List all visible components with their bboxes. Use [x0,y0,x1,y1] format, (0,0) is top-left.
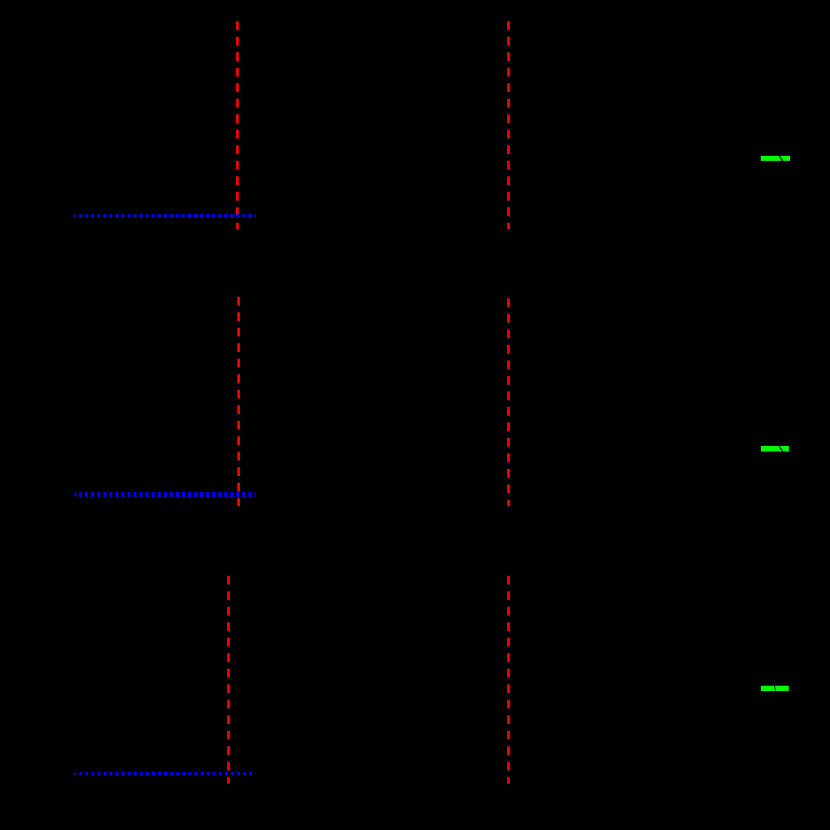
subplot 3: blue dotted hline [79,772,255,775]
subplot 1: blue arrowhead [73,214,77,218]
subplot 1: green segment [761,156,790,161]
subplot 1: red dashed vline left [236,21,239,229]
subplot 3: green segment [761,686,789,691]
subplot 2: green segment notch [779,446,783,452]
subplot 3: red dashed vline left [227,576,230,784]
subplot 2: blue dotted hline [79,492,255,497]
subplot 2: red dashed vline left [237,297,240,507]
subplot 1: green segment notch [779,156,783,161]
subplot 2: blue arrowhead [73,492,77,497]
subplot 1: red dashed vline right [507,21,510,229]
subplot 2: red dashed vline right [507,298,510,506]
subplot 2: green segment [761,446,789,452]
subplot 1: blue dotted hline [79,214,256,218]
subplot 3: green segment notch [774,686,775,691]
subplot 3: red dashed vline right [507,576,510,784]
subplot 3: blue arrowhead [73,772,76,775]
